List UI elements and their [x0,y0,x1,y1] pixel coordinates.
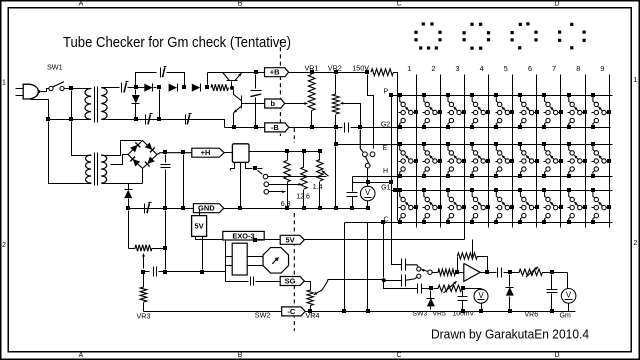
capacitor C16 [412,284,430,294]
box EXO-3 [223,231,264,240]
credit text [431,327,589,342]
rotary switch cell col8 group3 [567,188,587,224]
rotary switch cell col2 group2 [422,142,442,178]
junction Gm node [550,270,554,274]
voltmeter V2 Gm [561,289,576,312]
junction T1 bottom [69,117,73,121]
junction Q1 base node [230,86,234,90]
junction J1 GND [238,206,242,210]
column 2 label [431,64,435,73]
svg-text:SW2: SW2 [255,311,271,320]
capacitor C3 bottom [146,114,153,125]
svg-text:5: 5 [504,64,508,73]
junction multiplier n3 [182,85,186,89]
selector contact 1 [263,174,268,179]
junction VR2 top [334,70,338,74]
flag -C [282,307,306,316]
junction VR1 top [310,70,314,74]
svg-text:VR4: VR4 [306,311,320,320]
junction D1 bottom [134,117,138,121]
potentiometer VR2 [332,94,339,126]
capacitor C12 input a [402,259,419,271]
wire multiplier bottom [111,120,225,128]
potentiometer VR5 [434,281,482,293]
junction -B cap node [254,125,258,129]
svg-text:V: V [566,291,572,300]
junction Q2 emitter [232,125,236,129]
J1 pin center [240,163,242,207]
flag b [265,99,285,108]
row label C [383,217,388,224]
column 5 label [504,64,508,73]
voltmeter V1 [360,183,375,207]
svg-text:D: D [554,1,559,8]
junction VR2 wiper on G2 [358,125,362,129]
capacitor C14 out [498,268,502,278]
svg-text:A: A [79,1,84,8]
resistor R5 feedback [457,253,477,259]
+H rail [157,153,192,155]
svg-text:Gm: Gm [560,313,571,320]
resistor R2 150V [371,69,393,76]
svg-text:7: 7 [552,64,556,73]
flag SG [280,277,304,286]
GND rail mid [224,208,368,210]
svg-text:3: 3 [456,64,460,73]
junction pot3 bottom [318,206,322,210]
rotary switch cell col6 group2 [518,142,539,178]
bridge rectifier BR1 [128,141,157,169]
socket symbol 7-pin A [511,22,538,49]
flag +H [192,148,224,157]
oscillator crystal [226,243,263,275]
wire C14 to node [504,272,520,274]
capacitor C8 GND rail [145,203,152,214]
svg-text:D: D [554,352,559,359]
wire b to VR1 wiper [285,102,308,105]
junction G1 left [393,188,397,192]
title text [63,34,291,51]
svg-text:2: 2 [633,240,637,247]
svg-text:9: 9 [600,64,604,73]
svg-text:5V: 5V [286,235,295,244]
svg-text:+B: +B [270,68,280,77]
label VR1 VR2 150V [305,64,370,73]
junction meter V1 top [366,180,370,184]
label SW1 [47,63,63,72]
junction D5 GND [126,206,130,210]
rotary switch cell col2 group1 [422,93,442,129]
svg-text:+H: +H [201,148,211,157]
capacitor C5 +B [250,91,261,97]
v2 to cap2 [384,280,402,282]
junction selector feed [253,166,257,170]
capacitor C17 [458,291,468,310]
column 7 label [552,64,556,73]
rail E [336,144,613,146]
capacitor C6 on G2 rail [345,123,349,133]
socket symbol octal [463,23,491,50]
column 9 label [600,64,604,73]
wire bridge bottom [142,169,144,184]
column 4 label [480,64,484,73]
svg-text:SW3: SW3 [413,311,428,318]
rotary switch cell col7 group2 [542,142,563,178]
potentiometer RH2 [301,152,307,207]
transformer T1 core [95,87,98,123]
switch SW3 common [421,269,432,275]
junction VR2 bottom [334,125,338,129]
diode D3 series [169,84,178,92]
wire VR2 top [335,75,337,95]
rail G1 [392,190,613,192]
rotary switch cell col1 group1 [398,93,418,129]
+B rail top [208,72,265,74]
svg-text:V: V [365,188,371,197]
wire sel2 to pot2 [269,184,297,186]
junction H branch GND [181,206,185,210]
junction C16 right [429,286,433,290]
column 6 label [528,64,532,73]
transformer T1 primary coil [85,89,92,120]
svg-text:EXO-3: EXO-3 [232,231,254,240]
resistor R1 [211,84,228,91]
svg-text:VR6: VR6 [525,312,539,319]
wire C2 to corner [167,73,185,86]
flag -B [265,123,289,132]
junction v1 P [389,93,393,97]
svg-text:-C: -C [287,307,295,316]
wire sel3 to pot1 [269,191,280,193]
label 12.6 [296,194,310,201]
label VR4 [306,311,320,320]
column 6 line [536,75,538,228]
wire +B cap vertical [255,75,257,126]
rotary switch cell col7 group1 [542,93,563,129]
column 5 line [512,75,514,228]
potentiometer RH1 [284,152,290,207]
rail P [392,95,613,97]
wire VR4 wiper up [328,279,385,281]
column 3 label [456,64,460,73]
capacitor C7 heater [347,177,358,207]
junction plug bottom rail [46,117,50,121]
svg-text:12.6: 12.6 [296,194,310,201]
svg-text:b: b [271,99,276,108]
transformer T2 secondary coil [101,155,110,184]
rotary switch cell col9 group2 [591,142,611,178]
junction VR5 right [461,286,465,290]
svg-text:1: 1 [633,77,637,84]
capacitor C1 [122,82,129,93]
pot1 wiper arrow [280,190,286,193]
rotary switch cell col1 group3 [398,188,418,224]
wire plug bottom down [31,100,49,118]
junction V3 bottom [479,309,483,313]
junction VR1 bottom [310,125,314,129]
label VR3 [137,312,151,321]
diode D6 out [506,275,514,310]
wire 5V box out2 [202,237,204,270]
label 1.4 [313,184,323,191]
wire T2 tap to bridge left [111,155,129,165]
svg-text:C: C [396,352,401,359]
wire C9-node down [165,211,167,270]
svg-text:6.3: 6.3 [281,201,291,208]
row label H [383,168,388,175]
rotary switch cell col8 group2 [567,142,587,178]
wire SW1 node down [71,91,73,118]
svg-text:1.4: 1.4 [313,184,323,191]
selector lever [258,170,263,174]
v2 branch down [384,281,412,289]
column 4 line [488,75,490,228]
svg-text:SW1: SW1 [47,63,63,72]
wire C1 to node [128,87,147,89]
svg-text:VR3: VR3 [137,312,151,321]
wire selector feed [258,168,263,170]
junction x368 bottom [366,309,370,313]
rotary switch cell col7 group3 [542,188,563,224]
junction x166 y271 [163,270,167,274]
J1 pin right hook [246,163,253,169]
switch SW-V common [365,157,370,168]
junction pot1 bottom [285,206,289,210]
dashed line A [279,40,281,136]
switch SW3 throw1 [417,267,421,271]
svg-text:6: 6 [528,64,532,73]
rotary switch cell col4 group3 [470,188,490,224]
pot3 wiper arrow [322,171,329,177]
rotary switch cell col6 group3 [518,188,539,224]
wire T2 sec top to bridge [111,141,142,156]
junction 150V node [365,70,369,74]
J1 pin left hook [231,163,235,171]
rotary switch cell col9 group3 [591,188,611,224]
column 2 line [440,75,442,228]
svg-text:H: H [383,168,388,175]
junction C17 bottom [461,309,465,313]
rotary switch cell col4 group1 [470,93,490,129]
junction pot3 top [318,149,322,153]
rail C [345,222,613,224]
wire EXO-3 left [225,241,227,282]
svg-text:4: 4 [480,64,484,73]
diode D1 shunt [132,90,140,118]
potentiometer VR6 [519,267,543,277]
junction D6 bottom [508,309,512,313]
column 1 label [407,64,411,73]
junction 5V out2 [200,270,204,274]
resistor R3 [129,245,164,252]
svg-text:2: 2 [2,242,6,249]
junction VR3 wiper [141,270,145,274]
junction x166 y248 [163,246,167,250]
diode D5 [124,190,132,207]
potentiometer RH3 [317,152,323,207]
svg-text:SG: SG [285,277,296,286]
row label G1 [381,185,390,192]
wire 5V box top [199,209,201,216]
svg-text:V: V [478,291,484,300]
svg-text:A: A [79,352,84,359]
switch SW1 [49,82,64,91]
wire VR2 wiper [340,102,360,126]
junction opamp out [485,270,489,274]
VR2 bottom to E [335,130,337,145]
junction H rail mid [181,150,185,154]
v1 P feed [392,96,402,265]
rotary switch cell col2 group3 [422,188,442,224]
wire VR2 wiper down to SW [360,130,363,152]
svg-text:1: 1 [407,64,411,73]
switch SW-V contact b [370,152,375,157]
junction n2 bottom [157,117,161,121]
rotary switch cell col4 group2 [470,142,490,178]
junction C7 bottom [350,206,354,210]
pot2 wiper arrow [295,183,302,186]
column 7 line [560,75,562,228]
junction node T1 top [69,86,73,90]
junction multiplier n2 [157,85,161,89]
svg-text:E: E [383,145,388,152]
rotary switch cell col8 group1 [567,93,587,129]
transformer T2 primary coil [83,155,92,184]
5V line [256,239,465,241]
E-net down to GND [335,147,337,207]
-B wire from corner [225,127,265,129]
column 3 line [464,75,466,240]
rotary switch cell col3 group2 [446,142,466,178]
wire SW1 to node [65,88,70,90]
svg-text:B: B [238,352,243,359]
wire SW3 to R4 [433,272,439,274]
wire Q2 base to b flag [242,103,265,105]
column 8 line [585,75,587,228]
rotary switch cell col5 group2 [494,142,514,178]
svg-text:100mV: 100mV [453,311,475,318]
wire H rail branch down [183,155,185,207]
diode D2 series [144,84,152,92]
wire T2 primary bottom feed [49,122,83,184]
junction meter V1 bottom [366,206,370,210]
svg-text:C: C [396,1,401,8]
potentiometer VR1 [308,75,315,126]
rail H [353,176,613,178]
junction v2 y280 dot [382,278,386,282]
wire n2 down [159,90,161,118]
wire fb top tee [472,240,474,257]
diode D7 [427,291,435,310]
flag +B [265,68,289,77]
rotary switch cell col3 group1 [446,93,466,129]
row label P [383,89,388,96]
junction out node [508,270,512,274]
wire VR6 to Gm node [543,272,568,274]
wire 150V branch down [368,75,374,149]
junction C15 bottom [550,309,554,313]
transformer T2 core [95,153,98,186]
capacitor C4 bottom [186,114,192,125]
bottom rail right [306,311,576,313]
label 6.3 [281,201,291,208]
bottom rail -C left [144,311,282,313]
potentiometer VR4 [307,289,313,310]
wire n4 up to +B rail [207,73,209,86]
rotary switch cell col9 group1 [591,93,611,129]
5V line to col3 joint [464,237,466,240]
label VR6 [525,312,539,319]
svg-text:5V: 5V [195,222,204,231]
wire SG to VR4 [305,282,311,289]
transformer T1 secondary coil [101,88,110,120]
wire top branch up [136,73,157,86]
row label E [383,145,388,152]
wire sel1 to pot3 [268,176,327,178]
junction C tail bottom [342,309,346,313]
flag 5V [280,235,304,244]
junction pot2 top [302,149,306,153]
v2 C feed [383,223,385,278]
op-amp U1 [456,263,481,281]
selector contact 2 [264,182,269,187]
C rail left tail [344,223,346,312]
wire 5V box out1 [196,237,255,240]
junction multiplier n1 [134,85,138,89]
svg-text:Tube Checker for Gm check (Ten: Tube Checker for Gm check (Tentative) [63,34,291,51]
svg-text:P: P [383,89,388,96]
svg-text:1: 1 [2,80,6,87]
svg-text:GND: GND [198,204,215,213]
svg-text:VR5: VR5 [433,311,446,318]
regulator J1 [232,144,249,163]
junction EXO-3 out [253,238,257,242]
rotary switch cell col5 group1 [494,93,514,129]
junction VR4 bottom [308,309,312,313]
junction v1 y182 [389,180,393,184]
label SW3 VR5 100mV [413,311,475,318]
wire y271 cap section [144,271,150,273]
wire 150V to P rail [394,73,398,221]
switch SW3 throw2 [417,274,421,278]
capacitor C2 top [161,67,167,78]
AC plug P1 [16,84,41,99]
wire H-branch [353,182,392,184]
svg-text:G2: G2 [381,122,390,129]
junction v2 C [381,220,385,224]
wire plug to SW1 [41,89,49,92]
wire bottom rail to T1 [49,119,91,121]
junction E-net GND [334,206,338,210]
flag GND [193,204,223,213]
junction C9 bottom [163,206,167,210]
capacitor C11 [154,267,157,277]
svg-text:B: B [238,1,243,8]
feedback up left [457,257,459,271]
voltmeter V3 [474,289,488,310]
R3 wiper arrow [142,254,145,269]
switch SW-V contact a [363,152,368,157]
transistor Q2 [233,90,242,126]
resistor R4 input [438,269,456,275]
rotary switch cell col3 group3 [446,188,466,224]
svg-text:Drawn by GarakutaEn 2010.4: Drawn by GarakutaEn 2010.4 [431,327,589,342]
oscillator octagon [263,248,289,273]
potentiometer VR3 [140,274,147,312]
socket symbol 9-pin [414,22,441,49]
transistor Q1 [223,72,242,87]
capacitor C15 Gm [547,275,558,310]
